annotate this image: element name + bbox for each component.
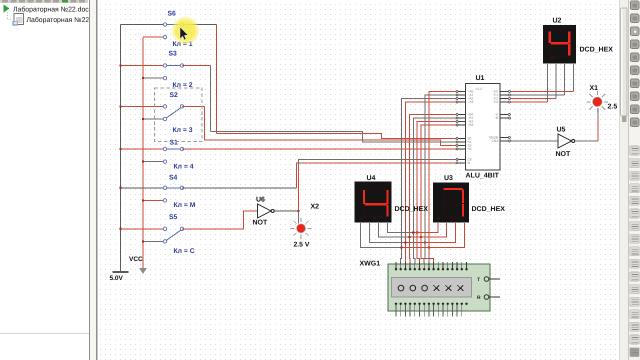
svg-text:~F3: ~F3	[492, 100, 498, 104]
svg-text:U1: U1	[476, 75, 485, 82]
svg-text:~B: ~B	[494, 116, 498, 120]
svg-text:U6: U6	[256, 197, 265, 204]
svg-text:Кл = 4: Кл = 4	[174, 163, 194, 170]
svg-text:S2: S2	[170, 92, 179, 99]
svg-text:5.0V: 5.0V	[110, 275, 124, 282]
svg-text:NOT: NOT	[556, 151, 572, 158]
svg-text:X2: X2	[311, 204, 320, 211]
svg-text:U2: U2	[553, 18, 562, 25]
svg-text:S3: S3	[468, 147, 472, 151]
svg-text:Кл = M: Кл = M	[174, 202, 196, 209]
svg-text:X1: X1	[590, 85, 599, 92]
svg-text:~A3: ~A3	[468, 100, 474, 104]
svg-text:NOT: NOT	[253, 220, 269, 227]
svg-text:ALU_4BIT: ALU_4BIT	[466, 173, 500, 180]
svg-text:DCD_HEX: DCD_HEX	[395, 206, 429, 213]
svg-text:~B3: ~B3	[468, 123, 474, 127]
svg-text:XWG1: XWG1	[360, 261, 381, 268]
svg-text:2.5 V: 2.5 V	[294, 242, 310, 249]
svg-text:T: T	[477, 277, 480, 283]
svg-text:R: R	[477, 295, 481, 301]
svg-text:U5: U5	[557, 127, 566, 134]
svg-text:S4: S4	[169, 175, 178, 182]
svg-text:S5: S5	[169, 214, 178, 221]
svg-text:S1: S1	[170, 140, 179, 147]
svg-text:Лабораторная №22.docx: Лабораторная №22.docx	[13, 6, 93, 14]
svg-text:VCC: VCC	[129, 256, 143, 263]
svg-text:CN4: CN4	[492, 139, 499, 143]
svg-text:DCD_HEX: DCD_HEX	[580, 47, 614, 54]
svg-text:U3: U3	[444, 175, 453, 182]
svg-text:M: M	[468, 161, 471, 165]
svg-text:Кл = 3: Кл = 3	[173, 127, 193, 134]
svg-text:DCD_HEX: DCD_HEX	[472, 206, 506, 213]
svg-text:ALU: ALU	[476, 87, 483, 91]
svg-text:2.5: 2.5	[608, 104, 618, 111]
svg-text:U4: U4	[367, 175, 376, 182]
svg-text:S6: S6	[168, 11, 177, 18]
svg-text:Кл = C: Кл = C	[174, 248, 195, 255]
svg-text:S3: S3	[169, 51, 178, 58]
